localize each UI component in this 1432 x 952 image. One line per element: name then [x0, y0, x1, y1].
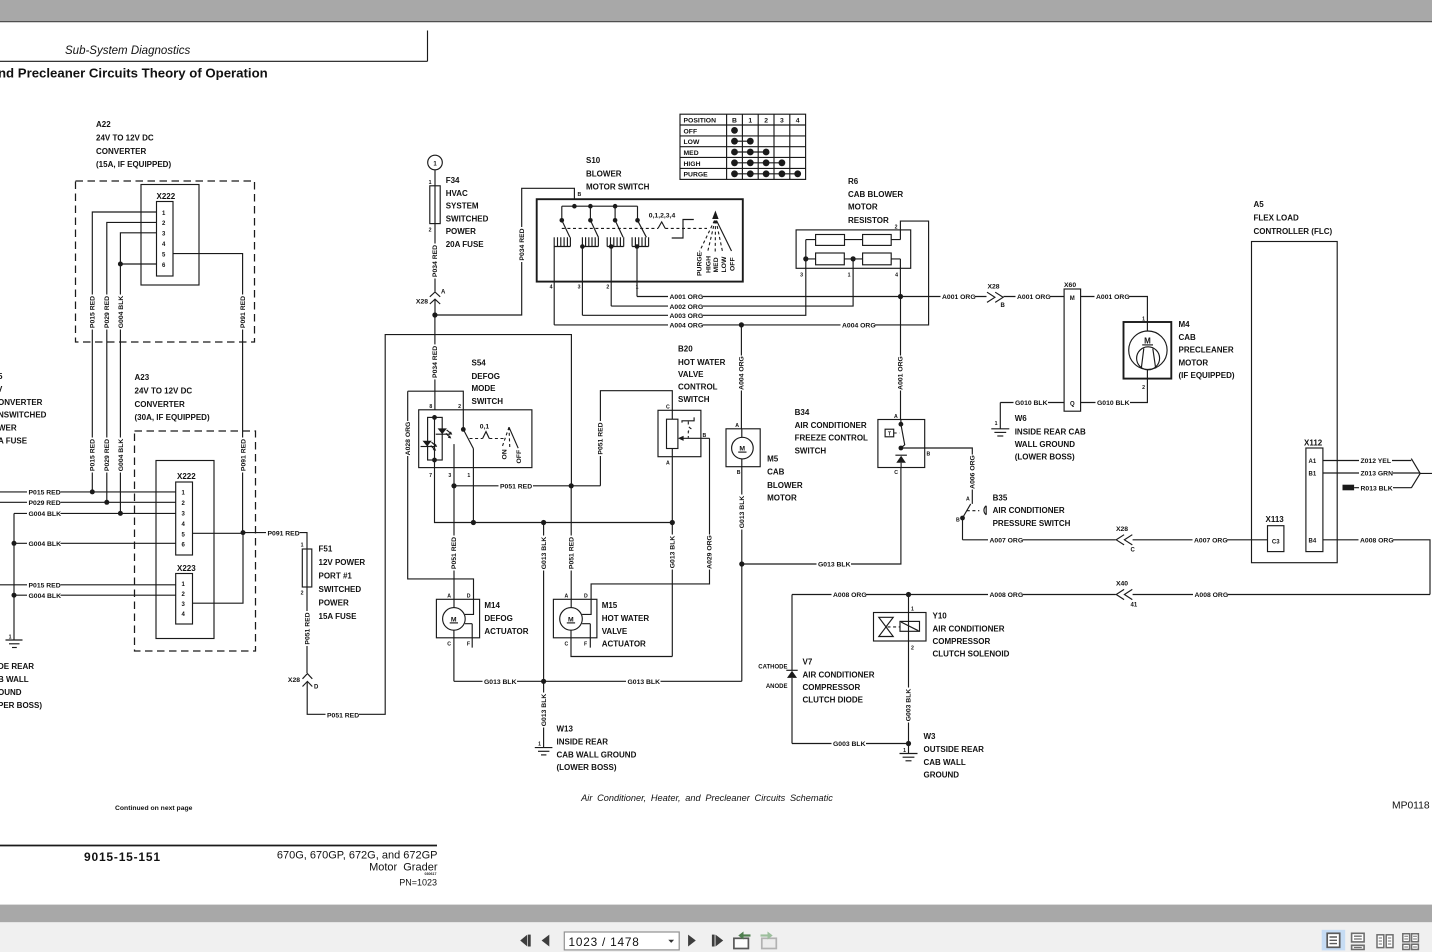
cut-off ground label left edge [0, 662, 42, 710]
B20 pin labels [666, 404, 706, 466]
svg-text:SWITCHED: SWITCHED [446, 214, 489, 223]
svg-text:P051 RED: P051 RED [500, 484, 532, 491]
G004 BLK vertical to ground [13, 513, 15, 640]
wire A004 ORG [554, 221, 928, 330]
label P029 RED vertical [103, 295, 112, 330]
wire P015 RED into X222-1 [0, 491, 176, 493]
svg-text:X28: X28 [416, 299, 428, 306]
wire A001 ORG to B34-A [896, 297, 905, 420]
next page button [688, 935, 696, 947]
svg-text:V7: V7 [803, 658, 813, 667]
svg-text:2: 2 [764, 118, 768, 125]
svg-text:1: 1 [429, 180, 432, 186]
svg-text:2: 2 [429, 228, 432, 234]
svg-text:A: A [441, 290, 446, 296]
wire M5-B G013 BLK down [737, 467, 746, 682]
svg-text:SWITCH: SWITCH [795, 446, 827, 455]
svg-text:MOTOR: MOTOR [1179, 358, 1209, 367]
wire P051 RED horizontal [451, 482, 600, 491]
svg-text:CATHODE: CATHODE [758, 664, 787, 670]
svg-text:LOW: LOW [721, 256, 728, 272]
connector X113 [1266, 515, 1285, 552]
svg-text:B20: B20 [678, 345, 693, 354]
page header rule [0, 31, 428, 62]
wire B35-B to A007 [962, 518, 964, 540]
junction M5-B / B34 branch [739, 561, 744, 566]
contact comb 2 [580, 237, 598, 315]
svg-text:X60: X60 [1064, 282, 1076, 289]
label A22 [96, 120, 171, 169]
wire F34 to X28-A [434, 224, 436, 292]
svg-text:1: 1 [995, 421, 998, 427]
label P034 RED vertical [517, 227, 526, 262]
wire X222-2 P029 RED [107, 222, 157, 502]
contact comb 1 [554, 237, 570, 325]
svg-text:BLOWER: BLOWER [586, 169, 622, 178]
label F34 [446, 176, 489, 249]
svg-text:A001 ORG: A001 ORG [1096, 294, 1130, 301]
wire G010 BLK right of X60 [1081, 379, 1148, 408]
svg-text:B: B [737, 470, 741, 476]
wire G010 BLK left of X60 [1000, 398, 1064, 407]
svg-text:C: C [1131, 548, 1136, 554]
svg-text:B: B [927, 452, 931, 458]
wire A008 ORG horizontal run [792, 590, 1430, 599]
svg-text:F: F [467, 642, 470, 648]
svg-text:X222: X222 [157, 192, 176, 201]
svg-text:A008 ORG: A008 ORG [1360, 538, 1394, 545]
svg-text:P051 RED: P051 RED [451, 537, 458, 569]
wire P015 RED into X223-1 [0, 584, 176, 586]
svg-text:MED: MED [713, 257, 720, 272]
svg-text:DEFOG: DEFOG [472, 372, 500, 381]
svg-text:Continued on next page: Continued on next page [115, 805, 193, 812]
svg-text:G004 BLK: G004 BLK [118, 439, 125, 472]
svg-text:D: D [314, 685, 319, 691]
svg-text:X28: X28 [288, 677, 300, 684]
label V7 [803, 658, 875, 705]
svg-text:OFF: OFF [684, 128, 698, 135]
wire B20-A ground branch [668, 457, 677, 657]
svg-text:P015 RED: P015 RED [90, 439, 97, 471]
svg-text:POSITION: POSITION [684, 118, 717, 125]
svg-text:P015 RED: P015 RED [90, 296, 97, 328]
svg-text:G003 BLK: G003 BLK [833, 741, 866, 748]
svg-text:670G, 670GP, 672G, and 672GP: 670G, 670GP, 672G, and 672GP [277, 850, 438, 862]
svg-text:F51: F51 [319, 545, 333, 554]
svg-text:9015-15-151: 9015-15-151 [84, 850, 161, 864]
label Y10 [933, 612, 1010, 659]
svg-text:B35: B35 [993, 493, 1008, 502]
contact comb 3 [607, 237, 624, 306]
svg-text:G004 BLK: G004 BLK [118, 296, 125, 329]
svg-text:M14: M14 [484, 601, 500, 610]
svg-text:AIR CONDITIONER: AIR CONDITIONER [803, 671, 875, 680]
svg-text:C: C [564, 642, 568, 648]
svg-text:8: 8 [429, 404, 432, 410]
svg-text:A FUSE: A FUSE [0, 437, 28, 446]
cut-off component label at left edge [0, 372, 47, 446]
svg-text:GROUND: GROUND [924, 771, 960, 780]
svg-text:SWITCH: SWITCH [472, 397, 504, 406]
wire S54-1 down [472, 449, 474, 523]
label P015 RED vertical [88, 295, 97, 330]
svg-text:2: 2 [895, 225, 898, 231]
svg-text:M: M [1070, 296, 1075, 302]
svg-text:A5: A5 [1254, 200, 1265, 209]
svg-text:CONTROLLER (FLC): CONTROLLER (FLC) [1254, 227, 1333, 236]
svg-text:D: D [467, 594, 471, 600]
svg-text:G004 BLK: G004 BLK [29, 541, 62, 548]
S54 LED indicator block [428, 415, 443, 462]
B34 box [878, 420, 925, 468]
wire A007 ORG [963, 536, 1268, 545]
svg-text:P029 RED: P029 RED [104, 296, 111, 328]
svg-text:0,1,2,3,4: 0,1,2,3,4 [649, 213, 676, 220]
svg-text:ON: ON [502, 449, 509, 459]
label M14 [484, 601, 528, 636]
S10 common bus [562, 204, 638, 220]
svg-text:P034 RED: P034 RED [432, 245, 439, 277]
svg-text:ACTUATOR: ACTUATOR [602, 640, 646, 649]
svg-text:WER: WER [0, 424, 17, 433]
svg-text:1: 1 [636, 285, 639, 291]
svg-text:B: B [732, 118, 737, 125]
svg-text:S10: S10 [586, 156, 601, 165]
svg-text:(30A, IF EQUIPPED): (30A, IF EQUIPPED) [135, 413, 210, 422]
svg-text:A: A [666, 460, 670, 466]
svg-text:15A FUSE: 15A FUSE [319, 612, 358, 621]
svg-text:B: B [578, 192, 582, 198]
continuous scroll button [1352, 933, 1365, 949]
B34 switch contact [899, 420, 905, 451]
label M4 [1179, 320, 1235, 380]
svg-text:P051 RED: P051 RED [304, 612, 311, 644]
svg-text:X222: X222 [177, 472, 196, 481]
last page button [712, 935, 723, 947]
svg-text:P051 RED: P051 RED [327, 713, 359, 720]
svg-text:DEFOG: DEFOG [484, 614, 512, 623]
svg-text:P091 RED: P091 RED [240, 296, 247, 328]
motor M5 [726, 423, 760, 476]
B20 box [658, 410, 701, 456]
svg-text:A: A [447, 594, 451, 600]
svg-text:3: 3 [448, 473, 451, 479]
svg-text:A001 ORG: A001 ORG [942, 294, 976, 301]
svg-text:LOW: LOW [684, 139, 700, 146]
S10 box [537, 199, 743, 281]
linkage dashed line [562, 222, 707, 229]
label R6 [848, 177, 903, 225]
connector X112 [1304, 439, 1323, 552]
svg-text:AIR CONDITIONER: AIR CONDITIONER [933, 625, 1005, 634]
svg-text:RESISTOR: RESISTOR [848, 216, 889, 225]
svg-text:CONVERTER: CONVERTER [96, 147, 146, 156]
svg-text:INSIDE REAR CAB: INSIDE REAR CAB [1015, 427, 1086, 436]
svg-text:M15: M15 [602, 601, 618, 610]
svg-text:A22: A22 [96, 120, 111, 129]
junction X28-A node [432, 312, 437, 317]
wire A004 ORG to M5-A [737, 325, 746, 429]
svg-text:P051 RED: P051 RED [568, 537, 575, 569]
svg-text:PN=1023: PN=1023 [399, 878, 437, 888]
svg-text:3: 3 [780, 118, 784, 125]
wire P029 RED into X222-2 [0, 501, 176, 503]
svg-text:A007 ORG: A007 ORG [1194, 538, 1228, 545]
svg-text:CAB WALL GROUND: CAB WALL GROUND [557, 751, 637, 760]
B20 rheostat [667, 410, 678, 456]
svg-text:2: 2 [458, 404, 461, 410]
B34 thermal element T [885, 429, 899, 437]
svg-text:P015 RED: P015 RED [29, 583, 61, 590]
connector X28 pin B [987, 283, 1006, 309]
wire P051 RED down to M15-A [567, 486, 576, 600]
wire A001 ORG X60 to M4 [1081, 292, 1148, 322]
svg-text:MOTOR SWITCH: MOTOR SWITCH [586, 183, 650, 192]
S54 on/off selector [502, 427, 524, 463]
svg-text:SWITCHED: SWITCHED [319, 585, 362, 594]
svg-text:2: 2 [1142, 385, 1145, 391]
S54 switch contact [408, 391, 474, 448]
next view button (disabled) [761, 932, 777, 949]
label A23 [135, 373, 210, 422]
svg-text:MOTOR: MOTOR [848, 203, 878, 212]
svg-text:B1: B1 [1309, 472, 1317, 478]
svg-text:Q: Q [1070, 402, 1075, 408]
svg-text:PER BOSS): PER BOSS) [0, 701, 42, 710]
B34 contact element [895, 455, 907, 467]
svg-text:24V TO 12V DC: 24V TO 12V DC [135, 386, 193, 395]
svg-text:2: 2 [606, 285, 609, 291]
connector X28 pin D [288, 674, 319, 691]
svg-text:A1: A1 [1309, 459, 1317, 465]
wire A028 ORG to M14-D [403, 391, 473, 599]
B20 tap switch symbol [682, 417, 694, 437]
motor M15 [553, 594, 597, 648]
svg-text:POWER: POWER [319, 599, 349, 608]
svg-text:4: 4 [550, 285, 553, 291]
selector arrow and fan [700, 211, 732, 254]
svg-text:A: A [894, 414, 898, 420]
svg-text:MED: MED [684, 150, 699, 157]
dashed enclosure A22 [76, 181, 255, 342]
wire P091 RED to F51 [243, 533, 307, 549]
svg-text:WALL GROUND: WALL GROUND [1015, 440, 1076, 449]
svg-text:HOT WATER: HOT WATER [602, 614, 650, 623]
svg-text:A: A [966, 496, 970, 502]
wire R013 BLK with terminator [1343, 484, 1412, 493]
svg-text:C: C [666, 404, 670, 410]
previous page button [542, 935, 550, 947]
svg-text:G013 BLK: G013 BLK [484, 679, 517, 686]
connector X60 [1064, 282, 1081, 411]
motor M4 [1124, 317, 1172, 391]
svg-text:Air Conditioner, Heater, and P: Air Conditioner, Heater, and Precleaner … [580, 793, 833, 803]
wire X222-6 to G004 [120, 263, 156, 265]
svg-text:C: C [447, 642, 451, 648]
svg-text:OUND: OUND [0, 688, 22, 697]
wire A008 to Y10-1 [908, 595, 910, 613]
S54 mode selector dashes [470, 424, 504, 439]
svg-text:24V TO 12V DC: 24V TO 12V DC [96, 133, 154, 142]
contact comb 4 [632, 237, 649, 296]
svg-text:G004 BLK: G004 BLK [29, 511, 62, 518]
svg-text:P034 RED: P034 RED [432, 346, 439, 378]
connector X40 pin 41 [1116, 581, 1138, 609]
svg-text:B: B [1001, 303, 1006, 309]
svg-text:A004 ORG: A004 ORG [670, 323, 704, 330]
wire X222-3 G004 BLK [120, 233, 156, 514]
svg-text:PURGE: PURGE [697, 251, 704, 276]
connector X222 (A23) [176, 472, 197, 555]
svg-text:G003 BLK: G003 BLK [906, 689, 913, 722]
svg-text:G013 BLK: G013 BLK [670, 536, 677, 569]
svg-text:POWER: POWER [446, 227, 476, 236]
svg-text:VALVE: VALVE [602, 627, 628, 636]
svg-text:Z013 GRN: Z013 GRN [1361, 471, 1394, 478]
wire G004 BLK into X222-6 [14, 542, 176, 544]
connector X28 pin C [1116, 526, 1136, 554]
fuse F34 [429, 170, 441, 234]
svg-text:G013 BLK: G013 BLK [739, 496, 746, 529]
harness merge bracket [1411, 459, 1432, 488]
B35 switch [956, 496, 986, 523]
svg-text:MOTOR: MOTOR [767, 493, 797, 502]
R6 pin labels [800, 225, 898, 279]
label F51 [319, 545, 366, 622]
LED 1 [436, 428, 453, 438]
wire X223-3 P091 RED [193, 533, 244, 604]
svg-text:1: 1 [848, 273, 851, 279]
wire M15-C loop to B20-A [571, 638, 672, 657]
svg-text:G010 BLK: G010 BLK [1097, 400, 1130, 407]
svg-text:G010 BLK: G010 BLK [1015, 400, 1048, 407]
svg-text:CLUTCH DIODE: CLUTCH DIODE [803, 696, 864, 705]
B20 wiper arrow [678, 436, 710, 441]
wire P051 RED up-loop to B20-C [596, 391, 672, 486]
svg-text:3: 3 [800, 273, 803, 279]
svg-text:M: M [451, 616, 457, 623]
ground W6 [991, 403, 1009, 437]
svg-text:PRESSURE SWITCH: PRESSURE SWITCH [993, 519, 1071, 528]
svg-text:MP0118: MP0118 [1392, 801, 1430, 812]
wire G013 BLK bus [454, 677, 742, 686]
S54 pin labels [429, 404, 470, 479]
label W3 [924, 732, 985, 780]
svg-text:FREEZE CONTROL: FREEZE CONTROL [795, 434, 868, 443]
wire G004 BLK into X222-3 [14, 512, 176, 514]
label B34 [795, 408, 868, 455]
svg-text:A007 ORG: A007 ORG [990, 538, 1024, 545]
label P051 RED vertical [303, 611, 312, 646]
label M15 [602, 601, 650, 649]
svg-text:nd Precleaner Circuits Theory: nd Precleaner Circuits Theory of Operati… [0, 66, 268, 81]
svg-text:A008 ORG: A008 ORG [990, 592, 1024, 599]
svg-text:MODE: MODE [472, 384, 497, 393]
diode V7 [758, 664, 797, 690]
svg-text:A001 ORG: A001 ORG [670, 294, 704, 301]
svg-text:A008 ORG: A008 ORG [833, 592, 867, 599]
svg-text:BLOWER: BLOWER [767, 481, 803, 490]
two page mode button [1377, 935, 1393, 948]
svg-text:X223: X223 [177, 564, 196, 573]
label B35 [993, 493, 1071, 528]
svg-text:C: C [894, 470, 898, 476]
svg-text:CAB: CAB [767, 467, 785, 476]
svg-text:D: D [584, 594, 588, 600]
label M5 [767, 454, 803, 502]
S10 pin numbers [550, 285, 639, 291]
svg-text:ANODE: ANODE [766, 684, 788, 690]
svg-text:PRECLEANER: PRECLEANER [1179, 346, 1234, 355]
wire X28-A to node [434, 299, 436, 315]
label B20 [678, 345, 726, 404]
connector X222 (A22) [141, 185, 199, 286]
wire V7 branch [791, 595, 793, 744]
label P091 RED vertical [238, 295, 247, 330]
svg-text:PORT #1: PORT #1 [319, 572, 353, 581]
resistor elements R6 [816, 235, 892, 265]
svg-text:FLEX LOAD: FLEX LOAD [1254, 213, 1300, 222]
junction G004/pin6 [118, 262, 123, 267]
svg-text:G013 BLK: G013 BLK [541, 694, 548, 727]
svg-text:C3: C3 [1272, 539, 1280, 545]
svg-text:G013 BLK: G013 BLK [818, 562, 851, 569]
svg-text:M5: M5 [767, 454, 779, 463]
wire G013 BLK to B34-C [742, 468, 901, 569]
wire P034 RED down to S54 pin 8 [434, 315, 436, 410]
bottom gray bar [0, 905, 1432, 923]
svg-text:(LOWER BOSS): (LOWER BOSS) [1015, 452, 1075, 461]
junction B20-A bus [670, 520, 675, 525]
svg-text:AIR CONDITIONER: AIR CONDITIONER [795, 421, 867, 430]
wire Z012 YEL [1323, 456, 1411, 465]
svg-text:1: 1 [748, 118, 752, 125]
svg-text:2: 2 [911, 646, 914, 652]
label W13 [557, 725, 637, 773]
svg-text:INSIDE REAR: INSIDE REAR [557, 738, 609, 747]
svg-text:0,1: 0,1 [480, 424, 490, 431]
svg-text:PURGE: PURGE [684, 172, 709, 179]
wire G004 BLK into X223-2 [14, 594, 176, 596]
svg-text:X40: X40 [1116, 581, 1128, 588]
label W6 [1015, 414, 1086, 461]
fuse F51 [301, 543, 312, 597]
label S54 [472, 359, 504, 406]
LED 2 [421, 441, 438, 451]
svg-text:Y10: Y10 [933, 612, 948, 621]
svg-text:G013 BLK: G013 BLK [628, 679, 661, 686]
svg-text:F: F [584, 642, 587, 648]
svg-text:A006 ORG: A006 ORG [970, 455, 977, 489]
wire P051 RED down to M14-A [450, 486, 459, 600]
svg-text:ONVERTER: ONVERTER [0, 398, 43, 407]
svg-text:P029 RED: P029 RED [29, 500, 61, 507]
junction P091 [241, 530, 246, 535]
wire S54-3 to P051 [453, 444, 455, 486]
wire A002 ORG [611, 259, 853, 311]
svg-text:CLUTCH SOLENOID: CLUTCH SOLENOID [933, 650, 1010, 659]
wire B34-B A006 ORG to B35 [901, 448, 977, 504]
svg-text:1: 1 [911, 607, 914, 613]
svg-text:X28: X28 [987, 283, 999, 290]
svg-text:X112: X112 [1304, 439, 1323, 448]
svg-text:S54: S54 [472, 359, 487, 368]
svg-text:AIR CONDITIONER: AIR CONDITIONER [993, 506, 1065, 515]
page number box [564, 932, 679, 950]
svg-text:A003 ORG: A003 ORG [670, 313, 704, 320]
svg-text:20A FUSE: 20A FUSE [446, 240, 485, 249]
